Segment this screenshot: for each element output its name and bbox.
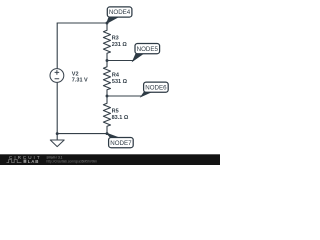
svg-text:http://circuitlab.com/cpa36M5h: http://circuitlab.com/cpa36M5hV0lm: [47, 160, 98, 164]
node NODE7: [107, 133, 133, 147]
junction dot node NODE4: [106, 22, 109, 25]
wire top horizontal: [57, 22, 107, 24]
ground: [50, 140, 64, 147]
label R4 value: [112, 72, 128, 84]
label V2 value: [72, 71, 88, 83]
node NODE4: [107, 7, 132, 23]
svg-text:531 Ω: 531 Ω: [112, 79, 128, 85]
svg-text:NODE7: NODE7: [110, 140, 132, 147]
svg-text:231 Ω: 231 Ω: [112, 42, 128, 48]
resistor R3: [103, 23, 110, 61]
svg-text:NODE4: NODE4: [109, 9, 131, 16]
voltage source V2: [50, 69, 64, 83]
svg-text:R4: R4: [112, 72, 120, 78]
svg-text:7.31 V: 7.31 V: [72, 77, 88, 83]
resistor R5: [103, 96, 110, 134]
svg-text:83.1 Ω: 83.1 Ω: [112, 115, 129, 121]
resistor R4: [103, 61, 110, 97]
svg-text:LAB: LAB: [28, 159, 39, 164]
label R5 value: [112, 109, 129, 121]
junction dot node NODE5: [106, 59, 109, 62]
junction dot node NODE7: [106, 132, 109, 135]
watermark text: [47, 155, 98, 163]
junction dot ground node: [56, 132, 59, 135]
label R3 value: [112, 36, 128, 49]
node NODE5: [133, 44, 160, 61]
wire left vertical: [56, 23, 58, 140]
junction dot node NODE6: [106, 95, 109, 98]
wire NODE6 stub: [107, 95, 142, 97]
svg-text:NODE5: NODE5: [137, 46, 159, 53]
node NODE6: [141, 82, 168, 96]
wire bottom horizontal: [57, 133, 107, 135]
watermark bar: [0, 154, 220, 165]
wire NODE5 stub: [107, 60, 134, 62]
svg-text:R3: R3: [112, 36, 119, 42]
watermark CircuitLab logo: [7, 155, 42, 164]
svg-text:R5: R5: [112, 109, 119, 115]
svg-text:NODE6: NODE6: [145, 84, 167, 91]
